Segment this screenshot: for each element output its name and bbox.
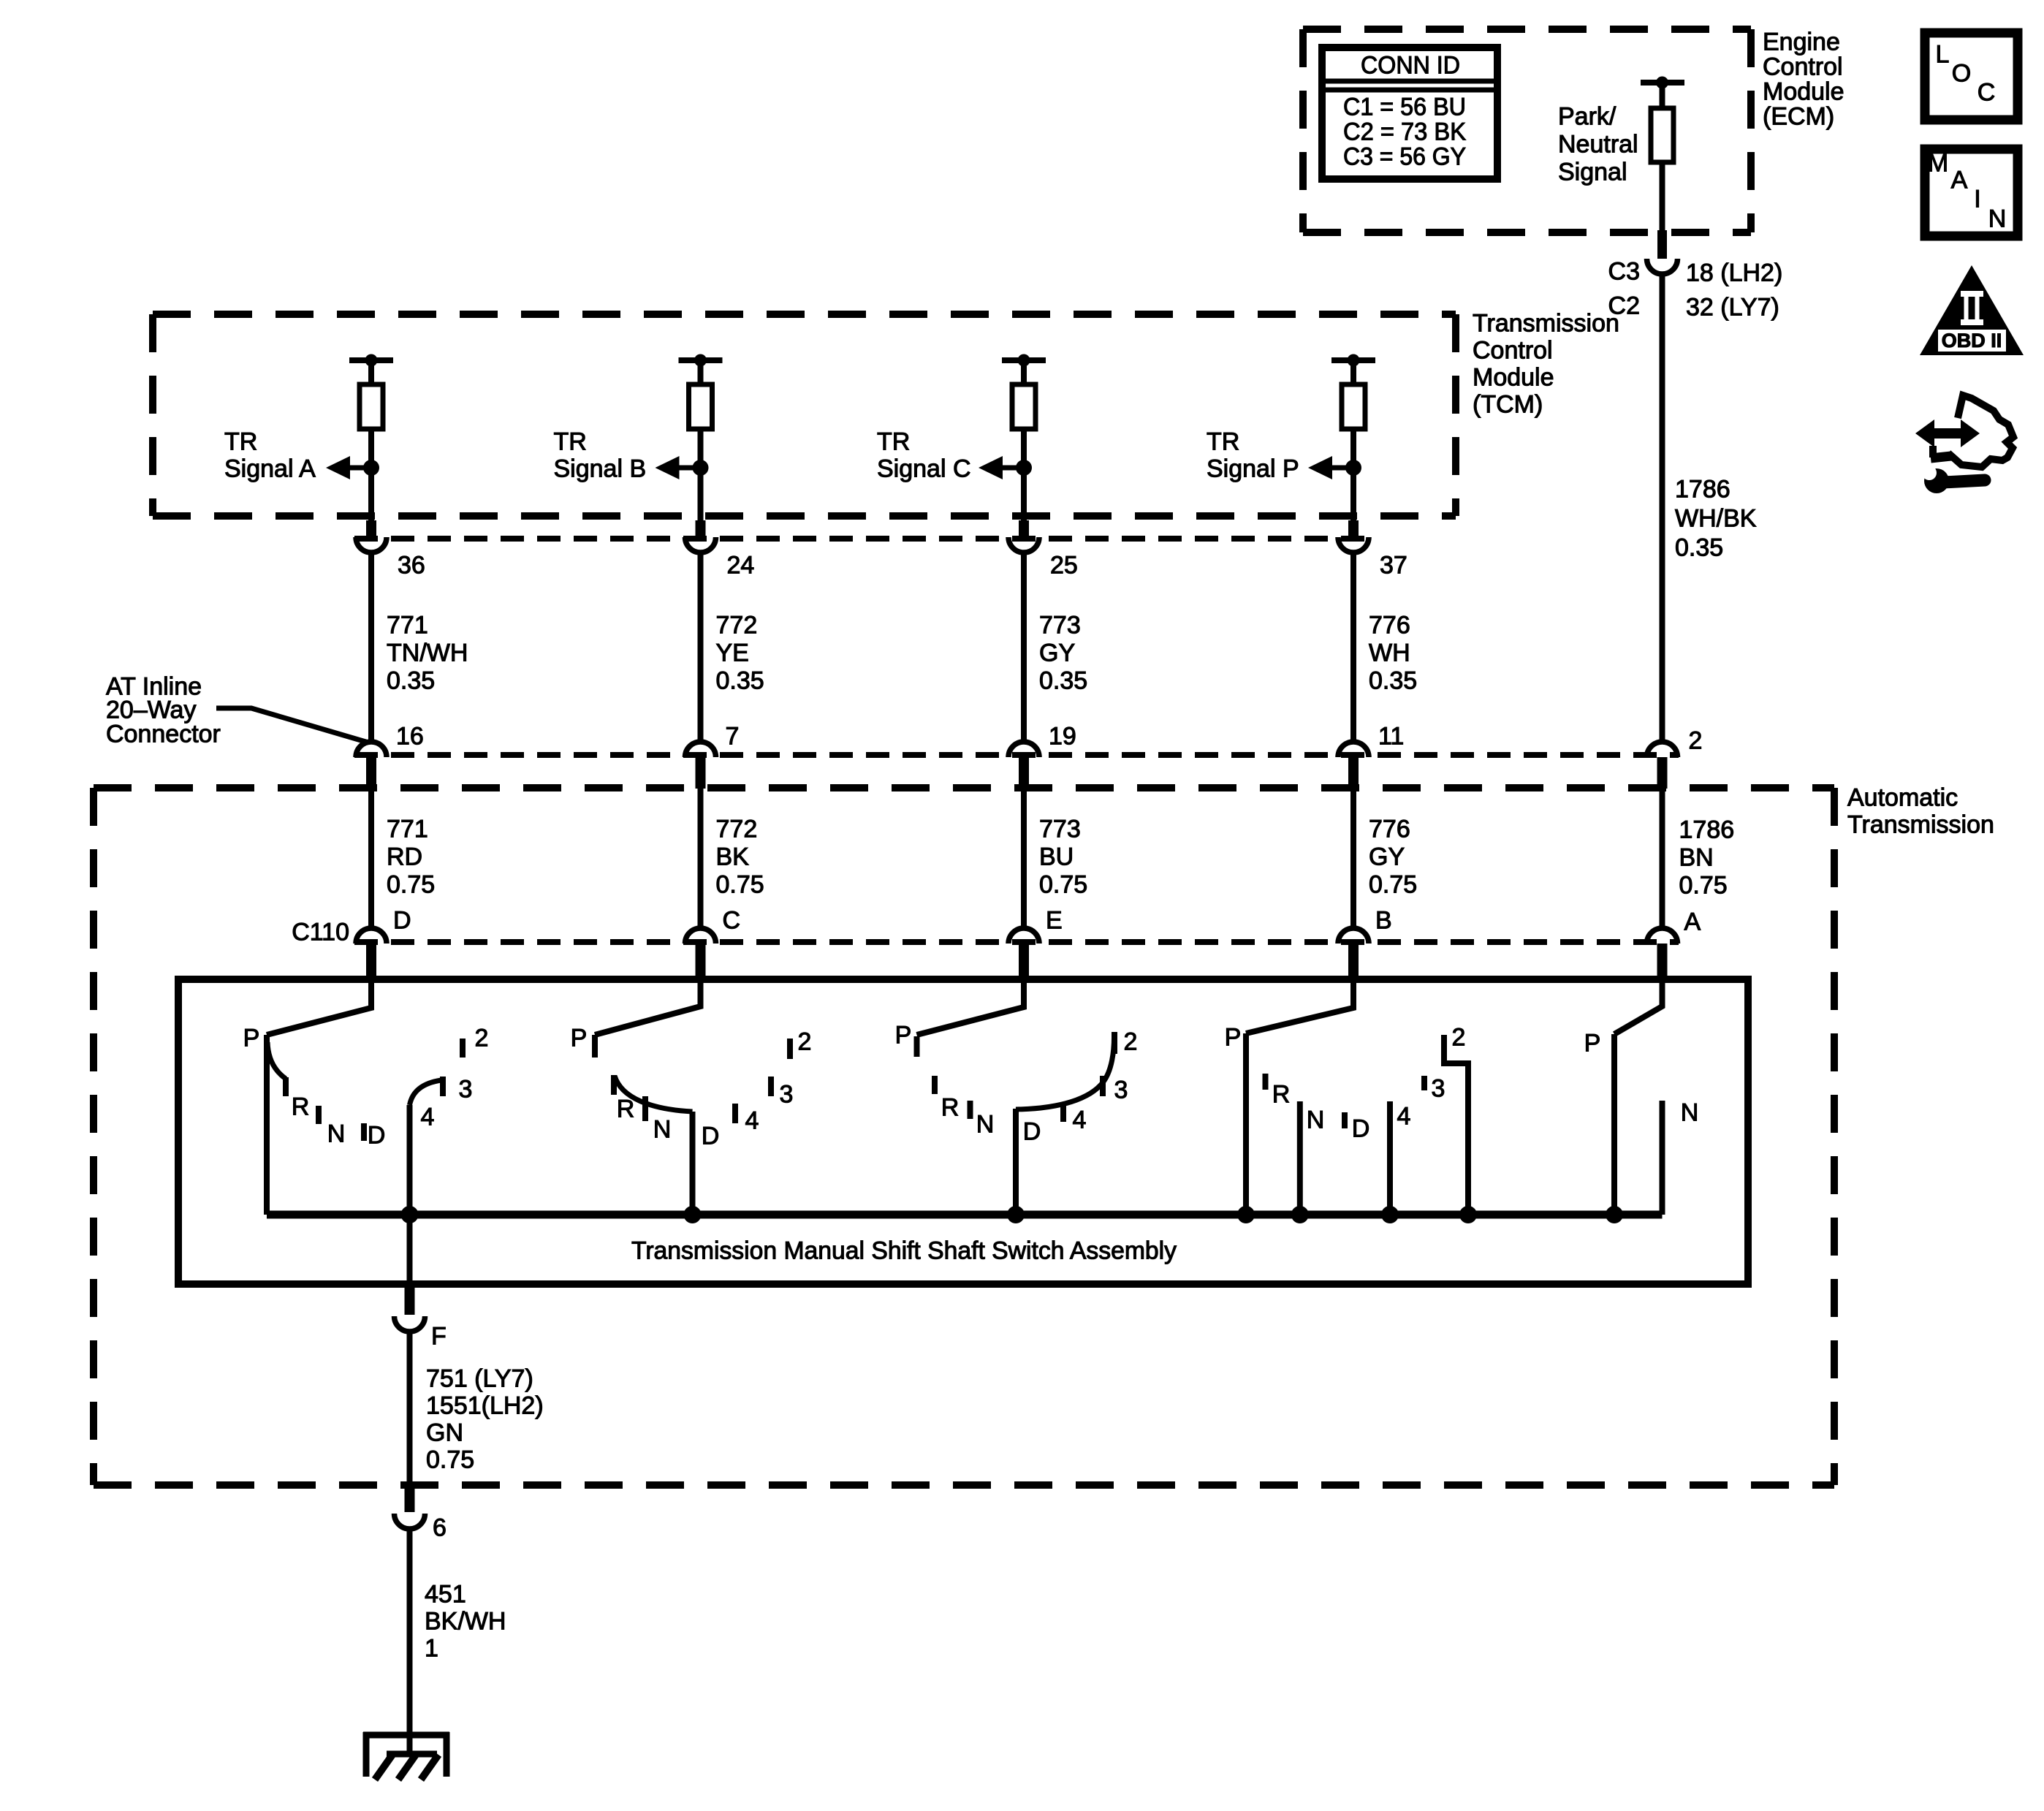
connector pin F of switch assembly [405,1284,415,1315]
resistor TR Signal P pull-up (TCM) [1331,357,1375,363]
svg-text:0.75: 0.75 [1679,872,1728,900]
wire resistor to TR Signal A node [368,429,374,468]
switch PN contact N wire to bus [1660,1101,1665,1215]
svg-text:3: 3 [459,1076,473,1104]
wire label 776 WH 0.35 [1369,612,1417,695]
svg-text:Signal: Signal [1558,159,1627,186]
svg-text:16: 16 [396,723,424,751]
connector C110 pin D [356,928,387,944]
junction on common bus x=560.5 [401,1206,419,1223]
svg-text:0.35: 0.35 [1369,667,1417,695]
svg-text:I: I [1974,186,1980,213]
wire into switch B [595,976,701,1035]
svg-text:773: 773 [1039,612,1081,639]
svg-text:A: A [1684,908,1701,936]
svg-text:Automatic: Automatic [1847,784,1958,812]
svg-text:4: 4 [1073,1106,1087,1134]
svg-text:N: N [327,1120,346,1148]
wire label 751 (LY7) 1551 (LH2) GN 0.75 [426,1365,544,1474]
svg-text:BK: BK [716,843,750,871]
svg-text:N: N [653,1116,672,1144]
svg-text:N: N [1988,205,2007,233]
svg-text:TN/WH: TN/WH [387,639,468,667]
ECM label [1763,29,1844,131]
svg-text:R: R [617,1096,635,1123]
svg-text:TR: TR [877,428,910,456]
svg-text:WH/BK: WH/BK [1675,505,1757,533]
TCM connector pin 24 [696,520,706,537]
icon service part outline [1931,395,2013,467]
svg-text:R: R [1272,1081,1291,1109]
svg-text:R: R [292,1093,310,1121]
svg-text:YE: YE [716,639,749,667]
connector C110 row (dotted) [354,939,1679,945]
junction on common bus x=1778.8 [1291,1206,1309,1223]
switch P contact 4 wire to bus [1387,1101,1393,1215]
svg-text:L: L [1936,41,1950,69]
switch C contact 2 [1112,1032,1117,1054]
svg-text:C2 = 73 BK: C2 = 73 BK [1343,118,1466,146]
wire 776 WH to inline connector pin 11 [1350,553,1356,743]
TR Signal C arrow [1002,466,1024,471]
leader line to inline connector [216,708,368,743]
connector C110 pin E [1008,928,1039,944]
switch B wiper arc R-D [615,1076,693,1112]
svg-text:1551(LH2): 1551(LH2) [426,1392,544,1420]
wire label 1786 WH/BK 0.35 [1675,476,1757,562]
switch A contact D [361,1123,367,1141]
svg-text:0.75: 0.75 [716,871,764,899]
label Transmission Manual Shift Shaft Switch Assembly [631,1237,1177,1265]
svg-text:Transmission: Transmission [1847,811,1994,839]
svg-text:(TCM): (TCM) [1473,391,1543,419]
svg-text:0.35: 0.35 [1675,534,1723,562]
svg-text:2: 2 [798,1028,812,1056]
svg-text:0.75: 0.75 [1039,871,1087,899]
svg-text:7: 7 [726,723,740,751]
switch C contact labels [895,1022,1138,1146]
svg-text:0.75: 0.75 [387,871,435,899]
svg-text:1786: 1786 [1675,476,1730,504]
label Automatic Transmission [1847,784,1994,839]
svg-text:36: 36 [398,552,425,580]
svg-text:C3: C3 [1608,258,1640,286]
switch C contact 3 [1100,1076,1106,1096]
resistor TR Signal C pull-up (TCM) [1002,357,1046,363]
switch A contact R [283,1077,289,1096]
svg-text:GN: GN [426,1419,463,1447]
node TR Signal A junction [363,460,379,476]
wire TR Signal P to TCM connector pin 37 [1350,468,1356,522]
switch A wiper arc P-R [267,1042,286,1079]
connector C110 pin C [685,928,716,944]
svg-text:OBD II: OBD II [1942,330,2002,352]
AT inline 20-way connector pin 7 [685,742,716,757]
svg-text:2: 2 [1452,1024,1466,1052]
svg-text:Signal C: Signal C [877,455,971,483]
wire label 451 BK/WH 1 [425,1581,506,1663]
wire TR Signal B to TCM connector pin 24 [698,468,704,522]
svg-text:771: 771 [387,816,428,843]
svg-text:1786: 1786 [1679,816,1735,844]
svg-text:M: M [1928,150,1948,178]
svg-text:1: 1 [425,1635,438,1663]
svg-text:Park/: Park/ [1558,103,1616,131]
label TR Signal P [1207,428,1299,483]
svg-text:C: C [1977,79,1996,107]
label TR Signal B [554,428,647,483]
svg-text:CONN ID: CONN ID [1361,52,1460,80]
icon wrench [1922,466,1985,493]
svg-text:TR: TR [224,428,257,456]
switch P contact P wire to bus [1243,1033,1249,1215]
switch A wiper arc 4-3 [410,1080,442,1105]
wire label 772 YE 0.35 [716,612,764,695]
label AT Inline 20-Way Connector [106,673,221,748]
switch PN contact labels [1584,1030,1699,1127]
svg-text:GY: GY [1039,639,1075,667]
connector C110 pin A [1647,928,1678,944]
icon double arrow [1915,419,1980,447]
ground G [363,1732,449,1780]
switch A contact labels [243,1025,489,1150]
junction on common bus x=2009 [1459,1206,1477,1223]
TCM connector pin 25 [1019,520,1029,537]
TCM dashed box (Transmission Control Module) [153,311,1456,318]
label TR Signal A [224,428,316,483]
wire 773 GY to inline connector pin 19 [1021,553,1027,743]
wire 772 BK to C110 pin C [698,789,704,929]
wire 1786 WH/BK from ECM to inline connector pin 2 [1660,274,1665,743]
label C110 [292,919,349,946]
resistor (ECM Park/Neutral pull-up) [1641,80,1684,86]
svg-text:3: 3 [780,1081,794,1109]
switch A contact 4 / common wire to pin F [407,1105,413,1284]
svg-text:D: D [393,907,411,935]
svg-text:751 (LY7): 751 (LY7) [426,1365,533,1393]
wire resistor to TR Signal B node [698,429,704,468]
switch B contact 3 [768,1077,774,1096]
wire 771 RD to C110 pin D [368,789,374,929]
wire into switch A [267,976,371,1035]
TCM label [1473,310,1619,419]
switch C contact P [914,1036,920,1057]
label Park/Neutral Signal [1558,103,1638,186]
wire label 771 TN/WH 0.35 [387,612,468,695]
ECM dashed box (Engine Control Module) [1303,26,1751,33]
svg-text:BU: BU [1039,843,1074,871]
TCM connector row (dotted) [354,536,1370,542]
wire 773 BU to C110 pin E [1021,789,1027,929]
resistor TR Signal A pull-up (TCM) [349,357,393,363]
wire resistor to TR Signal P node [1350,429,1356,468]
svg-text:Transmission: Transmission [1473,310,1619,338]
svg-text:451: 451 [425,1581,466,1609]
svg-text:C: C [723,907,741,935]
switch A contact N [316,1106,322,1124]
switch B contact 4 [732,1104,738,1123]
svg-text:B: B [1375,907,1392,935]
svg-text:37: 37 [1380,552,1407,580]
svg-text:3: 3 [1114,1077,1128,1104]
svg-text:2: 2 [1689,727,1703,755]
svg-text:F: F [431,1323,447,1351]
switch B contact N [642,1096,648,1121]
wire 776 GY to C110 pin B [1350,789,1356,929]
TR Signal P arrow [1331,466,1353,471]
wire 772 YE to inline connector pin 7 [698,553,704,743]
svg-text:Control: Control [1473,337,1553,365]
svg-text:6: 6 [433,1514,447,1542]
svg-text:0.35: 0.35 [387,667,435,695]
svg-text:Engine: Engine [1763,29,1840,56]
svg-text:4: 4 [1397,1103,1411,1131]
svg-text:(ECM): (ECM) [1763,103,1834,131]
svg-text:776: 776 [1369,816,1410,843]
svg-text:11: 11 [1378,723,1404,751]
svg-text:BN: BN [1679,844,1714,872]
TR Signal B arrow [679,466,701,471]
svg-text:GY: GY [1369,843,1405,871]
wire 771 TN/WH to inline connector pin 16 [368,553,374,743]
svg-text:0.75: 0.75 [426,1446,474,1474]
TCM connector pin 37 [1348,520,1359,537]
switch C contact D wire to bus [1013,1109,1019,1215]
node TR Signal B junction [693,460,709,476]
svg-text:P: P [571,1025,588,1052]
svg-text:2: 2 [475,1025,489,1052]
svg-text:Neutral: Neutral [1558,131,1638,159]
switch P contact labels [1225,1024,1466,1143]
svg-text:D: D [368,1122,386,1150]
svg-text:N: N [1681,1099,1699,1127]
junction on common bus x=2209 [1606,1206,1623,1223]
junction on common bus x=947.5 [684,1206,702,1223]
wire into switch C [917,976,1025,1035]
svg-text:Control: Control [1763,53,1843,81]
connector C2/C3 of ECM (pin 18 LH2 / 32 LY7) [1657,230,1667,259]
switch C contact R [932,1076,938,1094]
wire resistor to TR Signal C node [1021,429,1027,468]
svg-text:O: O [1952,60,1971,88]
switch C contact N [968,1101,973,1119]
svg-text:772: 772 [716,612,758,639]
svg-text:Module: Module [1473,364,1554,392]
wire label 776 GY 0.75 [1369,816,1417,899]
TR Signal A arrow [349,466,371,471]
svg-text:0.35: 0.35 [716,667,764,695]
icon MAIN box [1925,149,2018,236]
wire into switch PN [1614,976,1663,1034]
wire into switch P [1246,976,1353,1033]
switch B contact D wire to bus [690,1112,696,1215]
wire 1786 BN to C110 pin A [1660,789,1665,929]
svg-text:D: D [1352,1115,1370,1143]
svg-text:D: D [702,1123,720,1150]
svg-text:P: P [1584,1030,1601,1058]
svg-text:Connector: Connector [106,721,221,748]
svg-text:772: 772 [716,816,758,843]
svg-text:773: 773 [1039,816,1081,843]
svg-text:P: P [1225,1024,1242,1052]
svg-text:R: R [941,1094,960,1122]
AT inline 20-way connector row (dotted) [354,752,1679,758]
svg-text:N: N [976,1111,995,1139]
svg-text:4: 4 [421,1104,435,1131]
node TR Signal C junction [1016,460,1032,476]
resistor TR Signal B pull-up (TCM) [679,357,723,363]
AT inline 20-way connector pin 19 [1008,742,1039,757]
switch P contact 2 wire to bus [1444,1035,1468,1215]
svg-text:TR: TR [554,428,587,456]
svg-text:C110: C110 [292,919,349,946]
svg-text:Transmission Manual Shift Shaf: Transmission Manual Shift Shaft Switch A… [631,1237,1177,1265]
svg-text:Signal A: Signal A [224,455,316,483]
icon LOC box [1925,33,2018,120]
svg-text:0.75: 0.75 [1369,871,1417,899]
switch PN contact P wire to bus [1611,1034,1617,1215]
wire label 771 RD 0.75 [387,816,435,899]
svg-text:771: 771 [387,612,428,639]
switch A contact 3 [440,1077,446,1096]
svg-text:D: D [1023,1118,1041,1146]
wire TR Signal A to TCM connector pin 36 [368,468,374,522]
switch P contact D [1342,1112,1348,1128]
wire label 1786 BN 0.75 [1679,816,1735,900]
switch B contact R [611,1075,617,1095]
wire label 773 GY 0.35 [1039,612,1087,695]
svg-text:TR: TR [1207,428,1239,456]
svg-text:E: E [1046,907,1063,935]
switch C contact 4 [1060,1103,1066,1122]
svg-text:25: 25 [1050,552,1078,580]
svg-text:32 (LY7): 32 (LY7) [1686,294,1779,322]
switch A contact 2 [460,1039,466,1058]
wire 751/1551 GN to connector 6 [407,1332,413,1486]
svg-text:3: 3 [1432,1075,1445,1103]
AT inline 20-way connector pin 2 [1647,742,1678,757]
switch B contact labels [571,1025,812,1150]
svg-text:776: 776 [1369,612,1410,639]
junction on common bus x=1390 [1007,1206,1025,1223]
wire 451 BK/WH to ground [407,1529,413,1754]
Transmission Manual Shift Shaft Switch Assembly box [178,979,1748,1284]
AT inline 20-way connector pin 11 [1338,742,1369,757]
wire label 773 BU 0.75 [1039,816,1087,899]
svg-text:19: 19 [1049,723,1076,751]
svg-text:C3 = 56 GY: C3 = 56 GY [1343,143,1466,171]
svg-text:N: N [1307,1106,1325,1134]
node TR Signal P junction [1345,460,1361,476]
icon OBD II triangle [1920,265,2024,355]
svg-text:Signal P: Signal P [1207,455,1299,483]
svg-text:2: 2 [1124,1028,1138,1056]
svg-text:Signal B: Signal B [554,455,647,483]
Automatic Transmission dashed box [94,784,1834,791]
svg-text:BK/WH: BK/WH [425,1608,506,1636]
svg-text:4: 4 [745,1107,759,1135]
wire ECM resistor to connector C2/C3 [1660,162,1665,231]
switch A contact P wire [264,1035,270,1215]
switch P contact 3 [1421,1076,1427,1090]
svg-text:P: P [895,1022,912,1049]
svg-text:A: A [1951,167,1968,194]
svg-text:WH: WH [1369,639,1410,667]
junction on common bus x=1902 [1381,1206,1399,1223]
switch P contact R [1263,1074,1269,1090]
connector C110 pin B [1338,928,1369,944]
svg-text:24: 24 [727,552,755,580]
connector 6 (AT case) [405,1485,415,1512]
junction on common bus x=1705 [1237,1206,1255,1223]
svg-text:18 (LH2): 18 (LH2) [1686,259,1782,287]
svg-text:RD: RD [387,843,422,871]
wire common bus of switch assembly [267,1211,1663,1219]
CONN ID table [1322,48,1497,179]
svg-text:P: P [243,1025,260,1052]
svg-text:C1 = 56 BU: C1 = 56 BU [1343,94,1466,121]
switch C wiper arc D-2 [1016,1033,1114,1109]
switch B contact P [592,1035,598,1058]
wire label 772 BK 0.75 [716,816,764,899]
AT inline 20-way connector pin 16 [356,742,387,757]
svg-text:Module: Module [1763,78,1844,106]
svg-text:0.35: 0.35 [1039,667,1087,695]
wire TR Signal C to TCM connector pin 25 [1021,468,1027,522]
switch B contact 2 [787,1039,793,1059]
TCM connector pin 36 [366,520,376,537]
label TR Signal C [877,428,971,483]
switch P contact N wire to bus [1297,1101,1303,1215]
